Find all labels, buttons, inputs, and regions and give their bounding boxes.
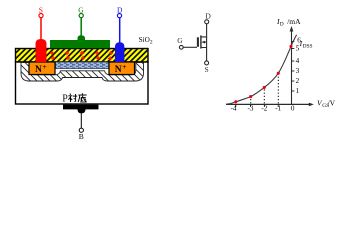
gate lead wire [183, 46, 197, 48]
wire S [40, 18, 42, 40]
svg-text:N: N [35, 65, 42, 75]
dotted guide at -1 [277, 74, 279, 104]
drain terminal circle [205, 20, 209, 24]
source rail [202, 37, 207, 61]
x axis VGS [226, 103, 314, 107]
dotted guide at -3 [250, 97, 252, 103]
terminal B circle [79, 128, 83, 132]
y axis title ID/mA [276, 17, 301, 28]
svg-text:N: N [115, 65, 122, 75]
svg-text:+: + [122, 62, 126, 71]
terminal D circle [117, 14, 121, 18]
body lead with arrow [204, 41, 207, 43]
svg-text:/mA: /mA [287, 17, 301, 26]
gate-oxide charge marks [50, 51, 113, 61]
svg-text:G: G [78, 6, 84, 15]
drain lead [202, 24, 207, 37]
svg-text:SiO: SiO [139, 36, 150, 44]
y axis ID [290, 26, 294, 104]
transfer characteristic curve [226, 35, 296, 105]
svg-text:B: B [79, 132, 84, 141]
svg-text:D: D [205, 12, 211, 21]
svg-text:-4: -4 [231, 105, 237, 113]
svg-text:D: D [280, 21, 284, 27]
built-in N channel [56, 62, 110, 69]
svg-text:-2: -2 [261, 105, 267, 113]
svg-text:2: 2 [150, 40, 153, 46]
dotted guide at -2 [263, 88, 265, 104]
x tick labels [231, 105, 295, 113]
drain metal electrode [115, 42, 124, 62]
N+ drain region [109, 62, 135, 75]
N+ diffusion boundary (hatched trough) [0, 60, 190, 84]
wire B [80, 113, 82, 128]
svg-text:0: 0 [291, 105, 295, 113]
channel bar [200, 35, 202, 48]
svg-text:S: S [39, 6, 43, 15]
svg-text:-1: -1 [275, 105, 281, 113]
y axis ticks 1-6 [292, 42, 295, 92]
svg-text:/V: /V [328, 98, 336, 107]
gate terminal circle [179, 45, 183, 49]
x axis ticks [236, 104, 278, 107]
svg-text:D: D [117, 6, 123, 15]
svg-text:G: G [177, 36, 183, 45]
terminal G circle [79, 14, 83, 18]
gate metal electrode [50, 35, 110, 48]
svg-text:DSS: DSS [303, 44, 313, 50]
svg-text:2: 2 [296, 77, 300, 85]
svg-text:P: P [62, 93, 68, 104]
x axis title VGS/V [317, 98, 336, 109]
svg-text:1: 1 [296, 87, 300, 95]
gate electrode bar [197, 37, 199, 47]
terminal S circle [39, 14, 43, 18]
IDSS label [299, 39, 313, 50]
N+ source region [29, 62, 55, 75]
wire G [80, 18, 82, 37]
SiO2 label [139, 36, 153, 46]
body (B) electrode [63, 105, 99, 114]
SiO2 oxide layer [0, 49, 177, 63]
y tick labels [296, 36, 302, 95]
svg-text:S: S [205, 65, 209, 74]
source terminal circle [205, 61, 209, 65]
label P substrate (P chen di) [62, 93, 86, 104]
source metal electrode [36, 39, 47, 62]
svg-text:4: 4 [296, 57, 300, 65]
sample points (red) [234, 45, 292, 104]
wire D [119, 18, 121, 44]
depletion NMOS symbol [179, 20, 208, 65]
svg-text:-3: -3 [248, 105, 254, 113]
svg-text:+: + [42, 62, 46, 71]
svg-text:3: 3 [296, 67, 300, 75]
P substrate body [16, 62, 149, 104]
